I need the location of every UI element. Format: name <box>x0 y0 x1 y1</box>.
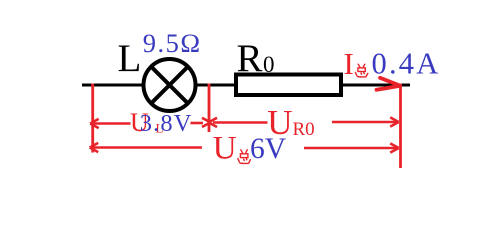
dimension row 1 right: span for U_R0 <box>209 117 399 127</box>
red vertical reference line right (node C) <box>399 84 402 169</box>
svg-text:6V: 6V <box>250 133 286 165</box>
resistor R0 (rectangle) <box>236 75 341 96</box>
svg-text:U: U <box>213 131 237 167</box>
svg-text:L: L <box>118 37 142 80</box>
dimension row 1 left: span for U_L <box>90 118 210 128</box>
subscript 总 (zong) after I <box>355 64 367 77</box>
lamp L (circle with X) <box>144 59 196 111</box>
red vertical reference line middle (node B) <box>208 84 211 133</box>
svg-text:0.4A: 0.4A <box>372 47 441 81</box>
current direction arrow (red, hand drawn) <box>377 78 399 90</box>
svg-text:R0: R0 <box>293 119 315 140</box>
svg-text:0: 0 <box>263 52 275 77</box>
wire between lamp and resistor <box>196 84 236 87</box>
red vertical reference line left (node A) <box>91 84 94 153</box>
subscript 总 after U_total <box>238 150 251 164</box>
svg-text:R: R <box>237 37 263 80</box>
dimension row 2: span for U_total <box>90 143 399 153</box>
svg-text:I: I <box>344 46 354 81</box>
wire right segment <box>341 84 410 87</box>
wire left segment <box>82 84 144 87</box>
svg-text:3.8V: 3.8V <box>140 110 193 137</box>
svg-text:9.5Ω: 9.5Ω <box>143 28 202 58</box>
